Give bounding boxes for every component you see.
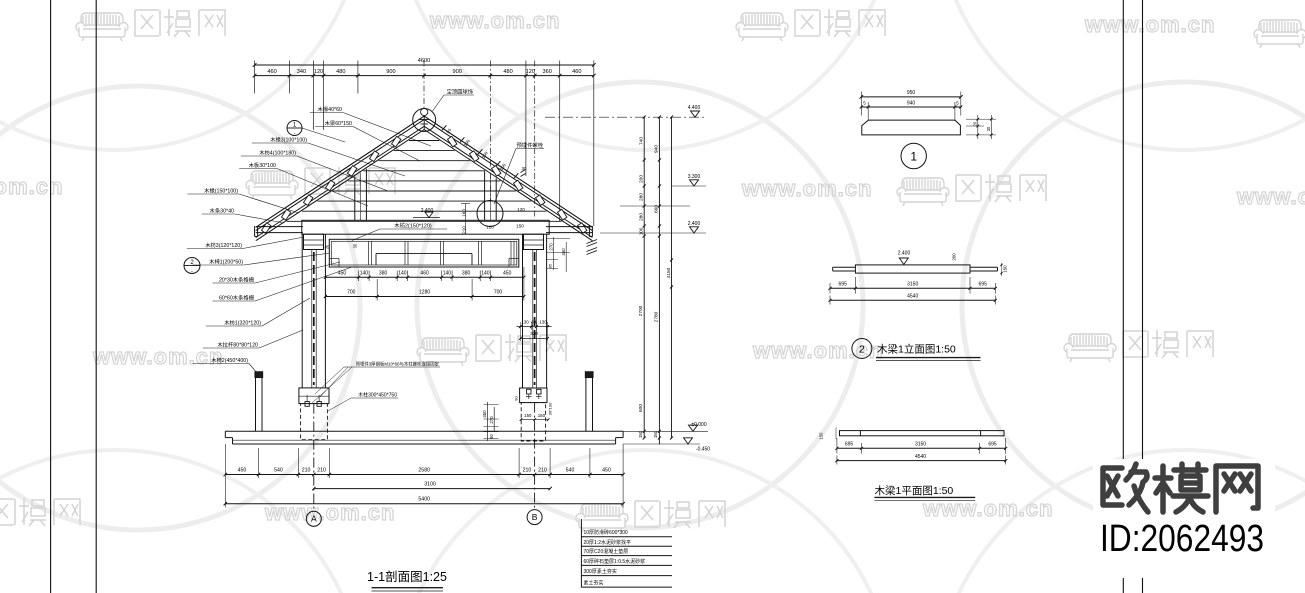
right eave cap	[588, 226, 590, 237]
column B cap	[524, 234, 544, 249]
svg-text:140: 140	[443, 270, 452, 276]
right strut callout circle	[477, 201, 503, 227]
svg-text:木椽3(100*100): 木椽3(100*100)	[270, 136, 307, 144]
svg-text:木枋3(120*120): 木枋3(120*120)	[205, 241, 242, 249]
svg-text:www.om.: www.om.	[1236, 184, 1305, 209]
svg-text:60: 60	[531, 319, 536, 324]
MAIN DRAWING placeholder	[184, 58, 1008, 591]
svg-text:450: 450	[602, 467, 611, 473]
svg-text:210: 210	[523, 467, 532, 473]
svg-text:700: 700	[494, 290, 503, 296]
callout circle 1	[287, 121, 302, 136]
break marks	[587, 240, 598, 244]
svg-text:540: 540	[274, 467, 283, 473]
svg-text:140: 140	[360, 270, 369, 276]
bottom dimension row 1	[225, 474, 623, 476]
svg-text:B: B	[532, 512, 538, 522]
svg-text:±0.000: ±0.000	[691, 422, 706, 428]
left strut	[354, 177, 356, 221]
svg-text:-: -	[191, 270, 193, 276]
svg-text:900: 900	[386, 69, 395, 75]
callout circle 2	[184, 258, 200, 274]
svg-text:素土夯实: 素土夯实	[584, 580, 604, 587]
svg-text:120: 120	[517, 207, 525, 212]
level flags	[545, 116, 706, 118]
svg-text:50: 50	[445, 127, 452, 134]
plan dims	[837, 447, 1006, 449]
grid line A	[313, 404, 315, 512]
svg-text:4540: 4540	[915, 454, 926, 460]
svg-text:2.400: 2.400	[898, 250, 911, 256]
svg-text:3150: 3150	[915, 442, 926, 448]
svg-text:www.om.cn: www.om.cn	[429, 8, 560, 33]
svg-text:695: 695	[979, 282, 988, 288]
footing A buried dashed	[301, 404, 328, 440]
footing B top dims 130/60/130 and 320	[516, 326, 551, 328]
purlin ticks on slopes	[391, 136, 400, 147]
svg-text:90: 90	[514, 396, 519, 401]
svg-text:木椅1(200*50): 木椅1(200*50)	[209, 258, 243, 266]
column B body	[522, 234, 524, 388]
bench dimension row 2	[325, 296, 524, 298]
svg-text:460: 460	[572, 69, 581, 75]
svg-text:950: 950	[907, 90, 916, 96]
right fascia board	[546, 226, 592, 228]
svg-text:60*60木条格栅: 60*60木条格栅	[219, 294, 255, 302]
svg-text:5400: 5400	[418, 497, 430, 503]
svg-text:木椽(150*100): 木椽(150*100)	[204, 187, 238, 195]
svg-text:2.400: 2.400	[688, 221, 701, 227]
svg-text:ID:2062493: ID:2062493	[1100, 518, 1264, 560]
svg-text:www.om.cn: www.om.cn	[0, 174, 63, 199]
site logo white backing	[1093, 459, 1275, 578]
svg-text:700: 700	[347, 290, 356, 296]
svg-text:2780: 2780	[654, 311, 660, 322]
bottom dim extension lines	[224, 444, 226, 508]
svg-text:340: 340	[297, 69, 306, 75]
level 2.400 in drawing	[413, 217, 440, 219]
detail 2 dims	[830, 287, 995, 289]
svg-text:140: 140	[481, 270, 490, 276]
svg-text:www.om.cn: www.om.cn	[922, 496, 1053, 521]
svg-text:460: 460	[420, 270, 429, 276]
svg-text:20*30木条格栅: 20*30木条格栅	[219, 276, 255, 284]
svg-text:450: 450	[503, 270, 512, 276]
svg-text:150: 150	[516, 224, 524, 229]
detail circle 1	[901, 143, 926, 168]
svg-text:380: 380	[462, 270, 471, 276]
svg-text:360: 360	[543, 69, 552, 75]
roof slope lines	[256, 116, 424, 227]
svg-text:130: 130	[539, 319, 547, 324]
svg-text:5: 5	[863, 100, 866, 105]
svg-text:-0.450: -0.450	[696, 447, 710, 453]
svg-text:3100: 3100	[424, 481, 436, 487]
bench backrest	[329, 239, 519, 267]
svg-text:320: 320	[530, 331, 538, 336]
svg-text:210: 210	[317, 467, 326, 473]
svg-text:木柱300*450*750: 木柱300*450*750	[358, 392, 397, 399]
ridge apex ornament + callout circle	[413, 109, 436, 132]
svg-text:60厚碎石垫层1:0.5水泥砂浆: 60厚碎石垫层1:0.5水泥砂浆	[584, 558, 646, 565]
top dimension line 4600	[255, 64, 594, 66]
svg-text:150: 150	[524, 413, 532, 418]
svg-text:2: 2	[859, 343, 865, 355]
svg-text:450: 450	[482, 410, 487, 418]
svg-text:85: 85	[548, 263, 553, 268]
svg-text:100: 100	[639, 227, 644, 235]
svg-text:120: 120	[526, 69, 535, 75]
svg-text:2580: 2580	[418, 467, 430, 473]
svg-text:1280: 1280	[419, 290, 430, 296]
ground slab	[225, 430, 623, 432]
svg-text:45: 45	[325, 245, 330, 250]
svg-text:www.om.cn: www.om.cn	[741, 176, 872, 201]
svg-text:木板30*100: 木板30*100	[249, 161, 276, 169]
main beam 木枋2	[302, 220, 549, 234]
svg-text:480: 480	[336, 69, 345, 75]
svg-text:木梁60*150: 木梁60*150	[325, 119, 352, 127]
svg-text:695: 695	[988, 442, 997, 448]
column A body	[301, 234, 303, 388]
footing A block	[299, 388, 329, 404]
svg-text:130: 130	[521, 319, 529, 324]
background watermark arcs	[0, 82, 1305, 530]
svg-text:540: 540	[566, 467, 575, 473]
svg-text:www.om.cn: www.om.cn	[1084, 12, 1215, 37]
svg-text:460: 460	[267, 69, 276, 75]
svg-text:940: 940	[654, 145, 660, 153]
svg-text:270: 270	[489, 416, 494, 424]
svg-text:120: 120	[486, 225, 494, 230]
svg-text:80: 80	[489, 434, 494, 439]
svg-text:3150: 3150	[907, 282, 918, 288]
svg-text:4150: 4150	[666, 267, 672, 278]
svg-text:2.400: 2.400	[421, 208, 434, 214]
svg-text:270: 270	[548, 243, 553, 251]
svg-text:150: 150	[538, 413, 546, 418]
svg-text:740: 740	[639, 137, 645, 145]
left fascia board	[256, 226, 303, 228]
grid line B	[534, 403, 536, 510]
svg-text:280: 280	[639, 213, 645, 221]
svg-text:210: 210	[538, 467, 547, 473]
svg-text:2700: 2700	[638, 305, 644, 316]
svg-text:30: 30	[353, 243, 358, 248]
svg-text:预埋件螺栓: 预埋件螺栓	[517, 141, 544, 149]
seat side dims	[966, 118, 996, 120]
svg-text:940: 940	[907, 100, 916, 106]
bottom dimension row 2	[314, 488, 550, 490]
svg-text:210: 210	[302, 467, 311, 473]
svg-text:20: 20	[973, 121, 978, 126]
right bollard post	[585, 378, 587, 432]
svg-text:140: 140	[398, 270, 407, 276]
svg-text:木椅2(450*400): 木椅2(450*400)	[211, 356, 248, 364]
svg-text:200: 200	[952, 253, 957, 261]
svg-text:30*100: 30*100	[548, 402, 553, 415]
svg-text:木梁1平面图1:50: 木梁1平面图1:50	[875, 484, 954, 497]
svg-text:200: 200	[639, 175, 645, 183]
svg-text:宝顶圆球饰: 宝顶圆球饰	[447, 88, 474, 96]
dim chain along right slope	[442, 125, 446, 130]
svg-text:695: 695	[839, 282, 848, 288]
svg-text:1: 1	[910, 150, 917, 164]
svg-text:300厚素土夯实: 300厚素土夯实	[584, 568, 617, 575]
svg-text:木枋2(150*120): 木枋2(150*120)	[394, 221, 432, 229]
svg-text:150: 150	[1003, 265, 1008, 273]
footing B buried dashed	[521, 403, 545, 441]
svg-text:450: 450	[238, 467, 247, 473]
svg-text:木椽40*60: 木椽40*60	[318, 105, 342, 113]
svg-text:150: 150	[819, 432, 824, 440]
top dimension line segments	[255, 75, 594, 77]
svg-text:A: A	[311, 514, 317, 524]
svg-text:木条30*40: 木条30*40	[210, 207, 234, 215]
left bollard post	[255, 378, 257, 432]
note table	[580, 519, 582, 588]
dims right of column B	[552, 237, 554, 270]
svg-text:380: 380	[379, 270, 388, 276]
svg-text:4540: 4540	[907, 294, 918, 300]
svg-text:3.300: 3.300	[688, 174, 701, 180]
seat profile shape	[862, 120, 961, 135]
svg-text:1-1剖面图1:25: 1-1剖面图1:25	[367, 570, 447, 584]
left eave cap	[254, 226, 256, 237]
svg-text:木枋1(320*120): 木枋1(320*120)	[224, 319, 261, 327]
svg-text:预埋件3厚钢板M10*60与木柱螺栓连接固定: 预埋件3厚钢板M10*60与木柱螺栓连接固定	[356, 361, 440, 368]
svg-text:900: 900	[453, 69, 462, 75]
svg-text:木枋4(100*180): 木枋4(100*180)	[259, 149, 296, 157]
svg-text:-: -	[294, 132, 296, 138]
svg-text:480: 480	[503, 69, 512, 75]
detail 2 title	[852, 339, 872, 359]
svg-text:600: 600	[638, 404, 644, 412]
svg-text:4.400: 4.400	[688, 105, 701, 111]
svg-text:20厚1:2水泥砂浆找平: 20厚1:2水泥砂浆找平	[584, 539, 632, 546]
svg-text:695: 695	[845, 442, 854, 448]
svg-text:280: 280	[639, 193, 645, 201]
svg-text:5: 5	[956, 100, 959, 105]
footing B inside dims 150/150	[521, 419, 548, 421]
site logo 欧模网 (hand drawn strokes)	[1103, 464, 1258, 512]
elevation stack verticals	[643, 117, 645, 438]
svg-text:木拉杆80*80*120: 木拉杆80*80*120	[217, 341, 258, 349]
svg-text:10厚防滑砖600*300: 10厚防滑砖600*300	[584, 529, 628, 536]
svg-text:30: 30	[986, 126, 991, 131]
gable horizontal boards	[409, 140, 439, 142]
svg-text:120: 120	[314, 69, 323, 75]
svg-text:木梁1立面图1:50: 木梁1立面图1:50	[877, 343, 956, 356]
bottom dimension row 3	[225, 503, 623, 505]
bench dimension row 1	[325, 276, 524, 278]
column A cap	[304, 234, 324, 249]
svg-text:450: 450	[561, 248, 566, 256]
svg-text:70厚C20混凝土垫层: 70厚C20混凝土垫层	[584, 548, 629, 555]
right strut	[484, 171, 486, 221]
footing B left dim cluster	[487, 402, 489, 441]
footing B block	[520, 388, 547, 403]
